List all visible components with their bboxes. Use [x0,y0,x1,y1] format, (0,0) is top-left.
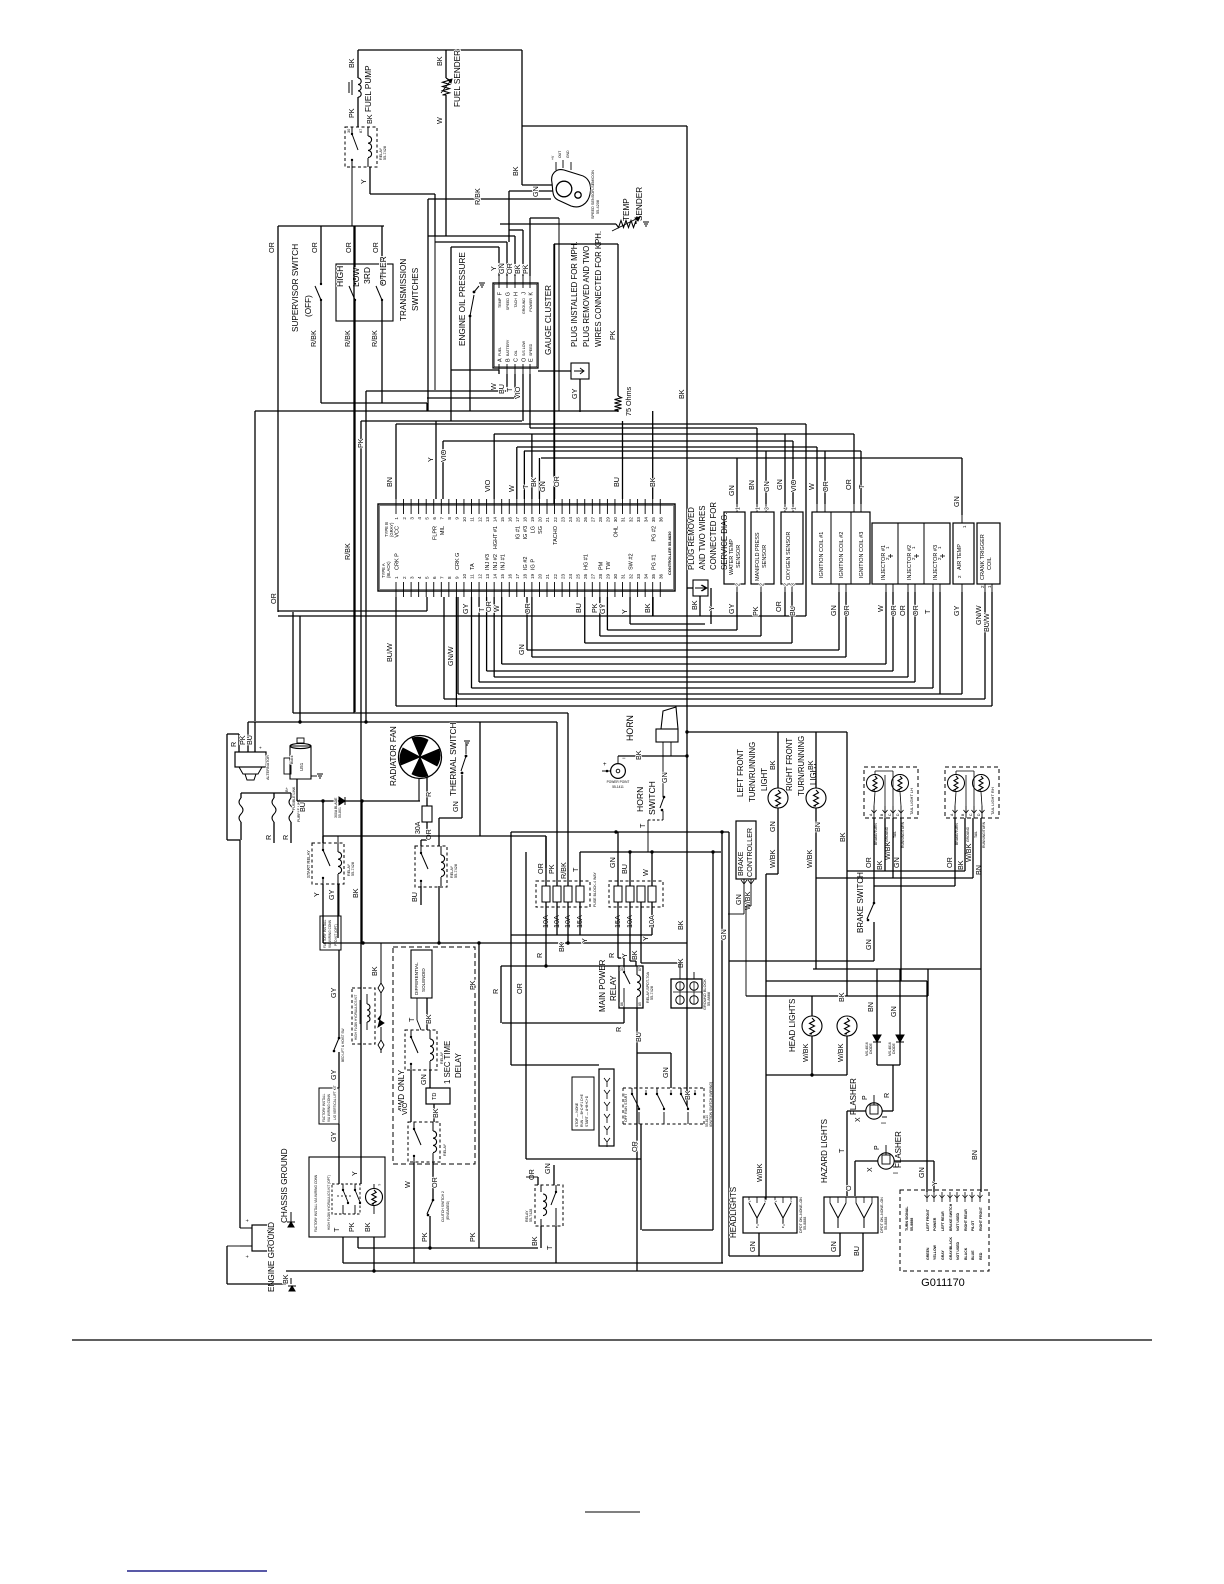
svg-text:S/S LOW: S/S LOW [522,340,526,356]
svg-text:1: 1 [394,576,399,579]
svg-text:GAUGE CLUSTER: GAUGE CLUSTER [544,285,553,355]
supervisor switch S1 [278,225,384,227]
svg-text:HORN: HORN [625,715,635,741]
svg-text:RIGHT FRONT: RIGHT FRONT [785,738,794,791]
svg-text:SG: SG [538,526,544,534]
svg-text:R: R [424,792,433,797]
svg-text:PLUG REMOVED AND TWO: PLUG REMOVED AND TWO [582,246,591,347]
svg-text:TACH: TACH [514,298,518,308]
svg-text:GN: GN [768,821,777,832]
svg-text:85: 85 [638,1002,642,1006]
svg-text:+: + [258,746,263,749]
svg-text:GY: GY [327,889,336,900]
svg-text:HAZARD LIGHTS: HAZARD LIGHTS [820,1119,829,1183]
svg-text:PK: PK [608,330,617,340]
svg-text:BK: BK [365,114,374,124]
svg-text:T: T [545,1245,554,1250]
svg-text:O: O [522,357,528,362]
svg-text:BK: BK [370,966,379,976]
svg-text:SPEED: SPEED [506,298,510,311]
svg-text:BU: BU [852,1246,861,1256]
svg-text:GRAY: GRAY [941,1250,945,1260]
svg-text:LEFT REAR: LEFT REAR [941,1211,945,1231]
svg-text:BU: BU [612,477,621,487]
svg-text:RELAY: RELAY [525,1210,529,1222]
wire: fan relay outputs [420,886,422,905]
svg-text:OXYGEN SENSOR: OXYGEN SENSOR [786,532,792,580]
svg-text:2: 2 [402,517,407,520]
svg-text:55-7428: 55-7428 [529,1209,533,1222]
svg-text:CRK G: CRK G [455,553,461,570]
svg-text:BK: BK [838,832,847,842]
svg-text:BK: BK [630,950,639,960]
svg-text:GN: GN [419,1074,428,1085]
svg-text:PK: PK [521,264,530,274]
wire: alternator leads [238,734,240,752]
svg-text:SWITCHES: SWITCHES [411,267,420,311]
wire: ignition outputs [640,1124,642,1230]
svg-text:OR: OR [371,242,380,253]
svg-text:TAIL LIGHT RH: TAIL LIGHT RH [990,787,995,815]
svg-text:BK: BK [529,477,538,487]
svg-text:HIGH: HIGH [335,266,345,287]
accessory switch box [309,1157,385,1237]
wire: long BK vertical trunk [686,126,688,1106]
svg-text:PG #2: PG #2 [651,526,657,542]
svg-text:BN: BN [747,480,756,490]
svg-text:W: W [507,485,516,492]
svg-text:11: 11 [470,517,475,522]
svg-text:26: 26 [583,573,588,579]
fan relay K3 [415,846,447,887]
svg-text:30A: 30A [415,821,422,834]
svg-text:Y: Y [707,606,716,611]
wire: transmission merge [321,402,427,404]
svg-text:R: R [264,835,273,840]
svg-text:PK: PK [347,108,356,118]
svg-text:5: 5 [424,576,429,579]
4WD relay B [408,1122,440,1162]
svg-text:10: 10 [462,517,467,523]
svg-text:OR: OR [344,242,353,253]
svg-text:(GRAY): (GRAY) [389,522,394,537]
wire: relay A to time delay [429,1070,431,1088]
svg-text:12: 12 [477,573,482,579]
svg-text:BU: BU [634,1032,643,1042]
wire: verticals near gauge [434,194,436,390]
svg-text:NOT USED: NOT USED [956,1212,960,1231]
svg-text:POWER: POWER [933,1217,937,1231]
svg-text:GN: GN [829,605,838,616]
svg-text:10: 10 [462,573,467,579]
svg-text:55-4208: 55-4208 [596,200,600,214]
svg-text:OR: OR [844,479,853,490]
svg-text:87: 87 [638,967,642,971]
svg-text:2: 2 [760,583,766,586]
svg-text:Y: Y [359,179,368,184]
radiator fan M1 [399,736,442,779]
svg-text:GN/W: GN/W [446,646,455,666]
svg-text:GN: GN [889,1006,898,1017]
fuse block 1 [536,881,590,907]
svg-text:BK: BK [677,389,686,399]
svg-text:(ENGAGED): (ENGAGED) [446,1201,450,1220]
wire: GY chain left [338,884,340,916]
fusible links [241,792,291,794]
svg-text:BK: BK [363,1222,372,1232]
svg-text:HG #1: HG #1 [583,554,589,570]
svg-text:SENSOR: SENSOR [762,545,768,568]
svg-text:START — A+B+C+D: START — A+B+C+D [585,1095,589,1127]
svg-text:CONNECTED FOR: CONNECTED FOR [709,502,718,570]
svg-text:BN: BN [385,477,394,487]
svg-text:SOLENOID: SOLENOID [421,968,426,992]
crank trigger coil [977,523,1000,584]
svg-text:23: 23 [560,517,565,523]
svg-text:8: 8 [447,576,452,579]
indicator lamp [366,1189,383,1206]
svg-text:20: 20 [538,573,543,579]
svg-text:MAIN POWER: MAIN POWER [598,959,607,1012]
svg-text:55-7428: 55-7428 [351,862,355,876]
svg-text:U51: U51 [299,762,304,771]
svg-text:R: R [614,1027,623,1032]
svg-text:VCC: VCC [395,526,401,538]
svg-text:W: W [492,605,501,612]
wire: gauge K pin drop [558,218,560,411]
wire: start relay outputs [322,884,324,943]
svg-text:GN: GN [952,496,961,507]
svg-text:GND: GND [566,150,570,158]
svg-text:OR: OR [515,983,524,994]
svg-text:SPEED SENSOR-SEMICON: SPEED SENSOR-SEMICON [591,170,595,219]
svg-text:W: W [807,483,816,490]
svg-text:GN: GN [762,481,771,492]
svg-text:BU: BU [788,606,797,616]
svg-text:H: H [514,292,520,296]
wire: right verticals [712,852,714,1230]
factory install note box 1 [320,916,341,950]
air temp sensor [953,523,974,584]
svg-text:Y: Y [620,953,629,958]
svg-text:OUT: OUT [558,151,562,158]
svg-text:34: 34 [643,573,648,579]
svg-text:W/BK: W/BK [801,1043,810,1062]
wire: solenoid output [296,779,298,801]
relay K1 (fuel pump relay) [345,127,377,167]
svg-text:BK: BK [530,1236,539,1246]
svg-text:MANIFOLD PRESS: MANIFOLD PRESS [755,532,761,581]
svg-text:7: 7 [440,576,445,579]
svg-text:BK: BK [676,958,685,968]
svg-text:(OFF): (OFF) [304,295,313,317]
svg-text:RED: RED [979,1252,983,1260]
wire: speed sensor connections [522,184,552,186]
svg-text:OR: OR [310,242,319,253]
svg-text:15: 15 [500,517,505,523]
svg-text:WIRES CONNECTED FOR KPH.: WIRES CONNECTED FOR KPH. [594,231,603,347]
svg-text:T: T [571,867,580,872]
svg-text:OR: OR [889,605,898,616]
svg-text:GN: GN [517,644,526,655]
svg-text:T: T [407,1017,416,1022]
svg-text:FLPR: FLPR [432,526,438,540]
svg-text:2: 2 [784,583,790,586]
svg-text:BU: BU [298,802,307,812]
svg-text:RADIATOR FAN: RADIATOR FAN [389,726,398,786]
svg-text:BU: BU [574,603,583,613]
key legend box [572,1077,594,1130]
svg-text:OR: OR [821,481,830,492]
svg-text:BATTERY: BATTERY [506,339,510,356]
svg-text:24: 24 [568,573,573,579]
svg-text:ALTERNATOR: ALTERNATOR [266,755,270,780]
svg-text:1: 1 [736,507,742,510]
svg-text:36: 36 [658,573,663,579]
ignition switch [623,1087,704,1089]
svg-text:GRAY/BLACK: GRAY/BLACK [949,1237,953,1260]
svg-text:OR: OR [269,593,278,604]
svg-text:NOT USED: NOT USED [956,1241,960,1260]
svg-text:GROUND: GROUND [522,298,526,314]
svg-text:B+: B+ [284,786,289,792]
svg-text:SENSOR: SENSOR [736,545,742,568]
svg-text:PK: PK [468,980,477,990]
svg-text:BK: BK [648,477,657,487]
svg-text:25: 25 [575,573,580,579]
wire: horizontal feeds y832 y852 [511,831,729,833]
svg-text:75 Ohms: 75 Ohms [624,386,633,416]
fuel sender [445,50,447,78]
wire: GY to lower switch box [338,1124,340,1146]
svg-text:TAIL LIGHT LH: TAIL LIGHT LH [909,788,914,815]
svg-text:X: X [855,1117,862,1122]
svg-text:OR: OR [774,601,783,612]
svg-text:R: R [229,742,238,747]
svg-text:BRAKE SWITCH: BRAKE SWITCH [949,1203,953,1231]
svg-text:BN: BN [813,822,822,832]
svg-text:HGHT #1: HGHT #1 [493,526,499,549]
clutch switch [432,1199,435,1202]
gauge cluster [493,283,538,368]
svg-text:C: C [514,358,520,362]
svg-text:FUSE BLOCK-4 WAY: FUSE BLOCK-4 WAY [593,872,597,907]
svg-text:R: R [607,953,616,958]
svg-text:15: 15 [500,573,505,579]
svg-text:Y: Y [580,938,589,943]
svg-text:SENDER: SENDER [635,187,644,221]
svg-text:AIR TEMP: AIR TEMP [957,544,963,570]
svg-text:87: 87 [359,129,363,133]
svg-text:VIO: VIO [400,1102,409,1115]
svg-text:GN: GN [917,1167,926,1178]
svg-text:CLUTCH SWITCH 2: CLUTCH SWITCH 2 [441,1191,445,1222]
alternator [235,752,266,767]
svg-text:TEMP: TEMP [498,297,502,308]
svg-text:Y: Y [620,609,629,614]
svg-text:55-7428: 55-7428 [454,864,458,878]
svg-text:86: 86 [620,1002,624,1006]
svg-text:3: 3 [409,517,414,520]
svg-text:T: T [837,1148,846,1153]
svg-text:13: 13 [485,517,490,523]
svg-text:26: 26 [583,517,588,523]
svg-text:2: 2 [736,583,742,586]
wire: ECU bottom pin drops and bus loops [278,615,806,617]
ignition coils [812,512,870,584]
svg-text:9: 9 [455,576,460,579]
svg-text:R/BK: R/BK [343,543,352,560]
svg-text:55-8888: 55-8888 [910,1218,914,1231]
svg-text:28: 28 [598,573,603,579]
turn signal connector legend [900,1190,989,1271]
wire: horizontal buses above ECU [255,410,618,412]
svg-text:55-8888: 55-8888 [707,992,711,1006]
svg-text:TURN/RUNNING: TURN/RUNNING [748,742,757,802]
svg-text:8: 8 [447,517,452,520]
wire: ECU top pin risers [395,424,397,499]
svg-text:OFF RUN START: OFF RUN START [624,1093,628,1122]
svg-text:27: 27 [591,573,596,579]
svg-text:55-8888: 55-8888 [803,1217,807,1230]
svg-text:BLUE: BLUE [971,1250,975,1260]
wire: tail light buses [884,818,886,871]
svg-text:VIO: VIO [483,479,492,492]
wire: top feed bus [358,49,522,51]
water temp sensor [724,512,745,584]
wire: PK R OR verticals to right [478,943,480,1248]
svg-text:POWER: POWER [529,298,533,312]
wire: y=943 bus [323,942,687,944]
svg-text:IGNITION COIL #2: IGNITION COIL #2 [839,532,845,578]
svg-text:BU: BU [410,892,419,902]
svg-text:OHL: OHL [614,526,620,537]
svg-text:23: 23 [560,573,565,579]
svg-text:BK: BK [676,920,685,930]
switch contacts in box [332,1184,360,1214]
svg-text:W: W [403,1181,412,1188]
svg-text:55-1411: 55-1411 [612,785,624,789]
svg-text:BU/W: BU/W [982,613,991,632]
wire: headlights switch connections [768,1197,770,1201]
svg-text:GY: GY [329,1069,338,1080]
svg-text:IG P: IG P [531,559,537,570]
svg-text:COIL: COIL [987,557,993,570]
svg-text:G: G [506,292,512,296]
wire: horn trunk junctions [686,731,688,733]
wire: bottom buses [343,1262,723,1264]
svg-text:11: 11 [470,574,475,579]
svg-text:BK: BK [351,888,360,898]
tail light RH [945,767,999,818]
svg-text:DIODE: DIODE [869,1043,873,1054]
wire: VIO and BK into relay B [410,1070,412,1122]
svg-text:OR: OR [527,1169,536,1180]
wire: BU solenoid line with diode [297,800,420,802]
svg-text:GY: GY [329,1131,338,1142]
svg-text:GN: GN [661,1067,670,1078]
high flow hydraulics kit box [352,988,375,1044]
svg-text:SUPERVISOR SWITCH: SUPERVISOR SWITCH [291,244,300,332]
svg-text:OTHER: OTHER [378,256,388,286]
svg-text:J: J [522,292,528,295]
svg-text:IGNITION COIL #1: IGNITION COIL #1 [819,532,825,578]
svg-text:LEFT FRONT: LEFT FRONT [736,749,745,797]
svg-text:VIO: VIO [439,449,448,462]
svg-text:4: 4 [784,507,790,510]
svg-text:32: 32 [628,517,633,523]
svg-text:GY: GY [598,603,607,614]
svg-text:OR: OR [424,829,433,840]
svg-text:BK: BK [768,760,777,770]
svg-text:INJ #1: INJ #1 [500,554,506,570]
svg-text:R/BK: R/BK [473,188,482,205]
svg-text:PK: PK [356,438,365,448]
svg-text:GROUND: GROUND [966,826,970,842]
svg-text:RUN — B+C+F1 D+E: RUN — B+C+F1 D+E [580,1093,584,1127]
svg-text:31: 31 [621,573,626,579]
svg-text:INJ #3: INJ #3 [485,554,491,570]
svg-text:I: I [881,1122,888,1124]
svg-text:X: X [867,1167,874,1172]
svg-text:+: + [603,762,607,768]
svg-text:35: 35 [651,573,656,579]
svg-text:R/BK: R/BK [309,330,318,347]
svg-text:55-7428: 55-7428 [383,146,387,160]
svg-text:I: I [893,1172,900,1174]
svg-text:6: 6 [432,517,437,520]
brake controller [736,821,756,879]
svg-text:TEMP: TEMP [622,198,631,221]
svg-text:FACTORY INSTALL: FACTORY INSTALL [322,1093,326,1122]
svg-text:HORN: HORN [635,787,645,812]
svg-text:GN: GN [531,186,540,197]
terminal strip [599,1069,614,1146]
svg-text:W: W [641,869,650,876]
svg-text:T: T [857,484,866,489]
wire: fuse block2 feeds [617,832,619,886]
svg-text:OR: OR [864,857,873,868]
svg-text:18: 18 [523,573,528,579]
speed sensor [552,170,591,207]
svg-text:GN: GN [451,801,460,812]
wire: hazard switch connections [846,1196,848,1197]
svg-text:TAIL: TAIL [974,831,978,838]
svg-text:32: 32 [628,573,633,579]
svg-text:RUNNING/TURN: RUNNING/TURN [982,821,986,848]
wire: bottom separator lines [72,1339,1152,1341]
svg-text:3: 3 [409,576,414,579]
svg-text:BRAKE: BRAKE [736,851,745,876]
svg-text:12: 12 [477,517,482,523]
svg-text:BK: BK [837,992,846,1002]
svg-text:R: R [491,989,500,994]
svg-text:LOW: LOW [351,268,361,287]
svg-text:LIGHT: LIGHT [760,768,769,791]
wire: feeds into lower section [292,612,294,713]
svg-text:INJECTOR #2: INJECTOR #2 [907,545,913,580]
svg-text:TACHO: TACHO [553,525,559,545]
svg-text:(BLACK): (BLACK) [386,561,391,578]
svg-text:RELAY: RELAY [609,975,618,1001]
injectors [872,523,950,584]
svg-text:Black: Black [290,755,294,764]
svg-text:R/BK: R/BK [343,330,352,347]
svg-text:1: 1 [756,507,762,510]
svg-text:PLUG REMOVED: PLUG REMOVED [687,507,696,570]
svg-text:31: 31 [621,517,626,523]
svg-text:LG: LG [531,526,537,533]
